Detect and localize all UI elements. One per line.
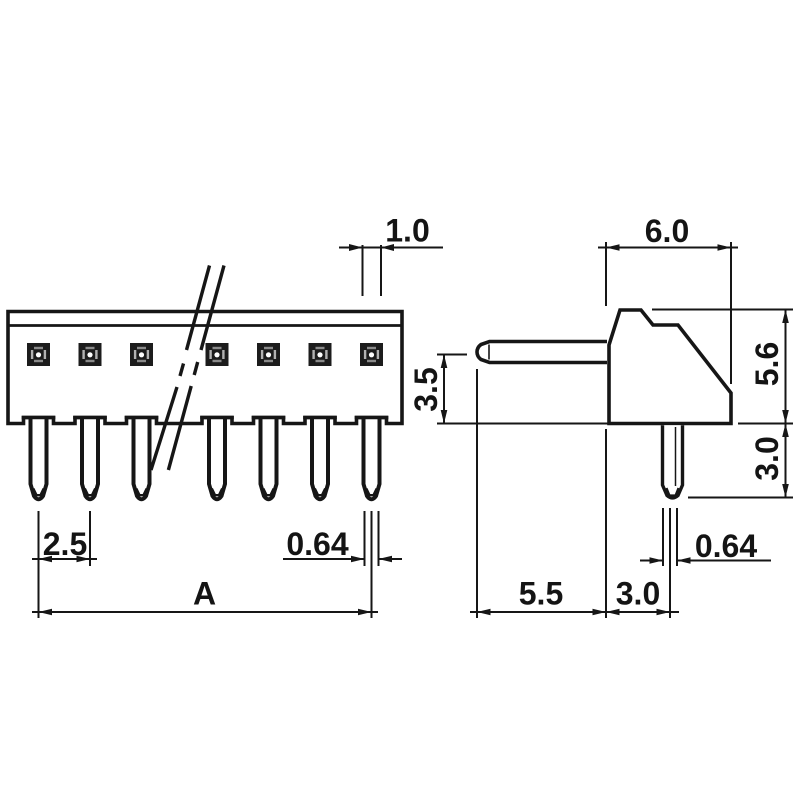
- svg-text:6.0: 6.0: [645, 213, 689, 249]
- svg-text:3.0: 3.0: [749, 436, 785, 480]
- svg-text:3.5: 3.5: [408, 367, 444, 411]
- svg-text:3.0: 3.0: [616, 576, 660, 612]
- svg-text:1.0: 1.0: [385, 213, 429, 249]
- svg-text:2.5: 2.5: [43, 526, 87, 562]
- svg-text:0.64: 0.64: [286, 526, 348, 562]
- svg-text:A: A: [193, 576, 216, 612]
- svg-text:5.6: 5.6: [749, 342, 785, 386]
- svg-text:5.5: 5.5: [519, 576, 563, 612]
- svg-text:0.64: 0.64: [695, 528, 757, 564]
